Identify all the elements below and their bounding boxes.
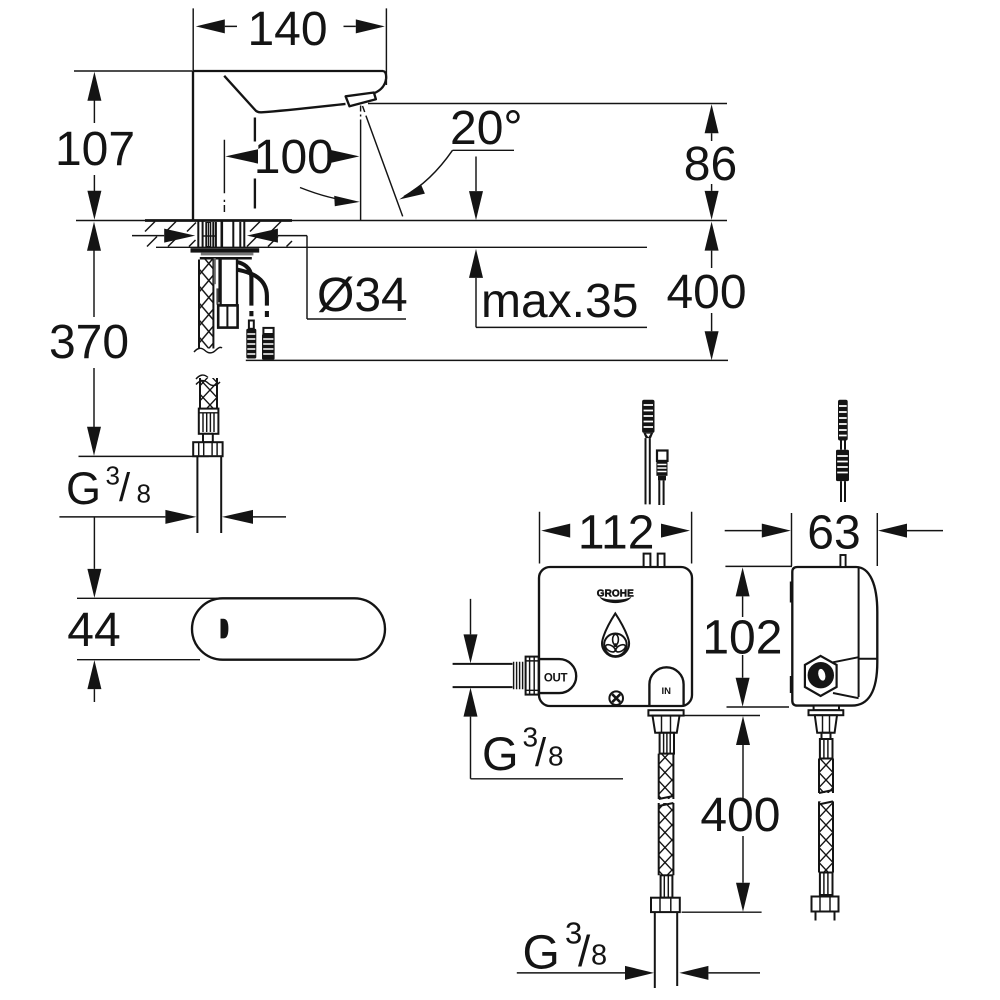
hose1 braided lower — [659, 803, 674, 875]
hose2 crimp — [820, 739, 833, 759]
svg-text:400: 400 — [666, 266, 746, 319]
dim 370 — [49, 222, 209, 457]
dim G3/8 bottom — [517, 916, 760, 980]
svg-text:20°: 20° — [450, 102, 523, 155]
dim O34 — [132, 229, 408, 322]
control box front view — [539, 567, 692, 706]
faucet center line — [223, 140, 225, 212]
OVAL-VIEW — [192, 598, 385, 659]
svg-text:Ø34: Ø34 — [317, 269, 408, 322]
svg-text:86: 86 — [684, 138, 737, 191]
svg-text:8: 8 — [548, 741, 564, 772]
svg-text:max.35: max.35 — [481, 275, 638, 328]
svg-text:112: 112 — [578, 506, 655, 559]
hose2 end nut — [812, 897, 839, 912]
dim 400 lower — [682, 716, 781, 913]
dim G3/8 OUT pipe — [464, 599, 624, 780]
svg-text:OUT: OUT — [544, 673, 568, 685]
hose stem — [203, 434, 213, 442]
svg-text:63: 63 — [807, 506, 860, 559]
svg-text:140: 140 — [247, 3, 327, 56]
side hex fitting — [805, 656, 837, 696]
cable plug 1 — [246, 321, 256, 359]
svg-text:/: / — [578, 927, 591, 976]
BOX-VIEWS — [453, 400, 878, 988]
cable plug 2 — [262, 328, 275, 360]
dim 100 — [225, 131, 359, 184]
counter bottom line — [156, 246, 647, 248]
cable plug A over box1 — [642, 400, 654, 505]
svg-text:GROHE: GROHE — [597, 589, 634, 600]
dim 112 — [540, 506, 692, 563]
svg-text:G: G — [482, 727, 519, 780]
hose2 neck — [822, 733, 831, 739]
dim 86 — [368, 104, 737, 220]
rod break squiggle — [194, 347, 222, 353]
water stream center line — [360, 106, 362, 221]
IN tab — [649, 667, 683, 706]
svg-text:102: 102 — [702, 611, 782, 664]
faucet left edge — [192, 71, 194, 220]
sensor cable wires — [237, 262, 252, 316]
FAUCET-VIEW — [76, 71, 727, 533]
dim 140 — [193, 3, 386, 85]
faucet top-right corner and spout curve — [374, 71, 386, 93]
faucet front face hidden edge dashes — [254, 118, 256, 209]
braided hose upper segment — [196, 375, 220, 409]
hose1 braided upper — [659, 754, 674, 799]
svg-text:44: 44 — [67, 604, 120, 657]
dim 102 — [702, 566, 792, 707]
DIMS-LEFT — [49, 3, 747, 702]
OUT tab — [540, 659, 576, 693]
screw — [609, 691, 623, 705]
sensor window — [221, 619, 229, 639]
hose2 braided upper — [819, 759, 833, 794]
bracket wedge lines — [833, 657, 859, 698]
svg-text:G: G — [523, 927, 560, 980]
svg-text:/: / — [119, 466, 131, 510]
OUT pipe — [453, 664, 513, 687]
cable plug B over box1 — [656, 451, 667, 506]
flexible hose — [197, 456, 221, 533]
svg-text:/: / — [535, 731, 547, 775]
side cover seam — [858, 568, 860, 698]
svg-text:G: G — [66, 463, 101, 514]
cable stub on box2 top — [840, 555, 845, 567]
GROHE logo — [597, 589, 634, 604]
dim G3/8 faucet hose — [59, 461, 286, 524]
DIMS-RIGHT — [464, 506, 944, 980]
dim 20deg — [300, 102, 523, 206]
G3/8 nut — [193, 442, 222, 456]
svg-text:8: 8 — [137, 479, 151, 509]
side notch line — [859, 658, 878, 660]
hose1 crimp lower — [661, 875, 673, 897]
hose2 braided lower — [819, 801, 833, 872]
control box side view — [790, 567, 878, 706]
dim 63 — [725, 506, 943, 566]
hex fitting bore — [808, 662, 834, 688]
faucet top edge — [193, 70, 383, 72]
svg-text:400: 400 — [700, 789, 780, 842]
dim 107 — [55, 71, 193, 220]
cable plugs over box2 — [836, 400, 849, 502]
shank cross-section — [198, 221, 244, 247]
drop icon with fan — [602, 613, 629, 656]
faucet top view outline — [192, 598, 385, 659]
svg-text:100: 100 — [254, 131, 334, 184]
sensor cable strip — [214, 258, 216, 284]
hose1 end nut — [651, 898, 680, 912]
aerator — [346, 93, 376, 107]
dim 400 upper — [246, 222, 747, 361]
spray direction line 20deg — [363, 106, 403, 216]
OUT hex nut — [526, 657, 539, 695]
threaded rod — [194, 260, 222, 353]
svg-text:IN: IN — [662, 686, 672, 697]
counter top line — [76, 220, 727, 222]
hose2 stub — [816, 912, 835, 921]
hose2 nut — [815, 715, 837, 733]
hose1 crimp — [660, 733, 674, 754]
solenoid housing — [221, 259, 237, 306]
svg-text:370: 370 — [49, 316, 129, 369]
UNDERCOUNTER — [0, 0, 1, 1]
box2 bottom neck — [814, 706, 839, 711]
faucet front slope and spout underside — [224, 76, 345, 113]
dim 44 — [67, 517, 260, 702]
counter hatching — [145, 222, 292, 247]
box2 bottom flange — [809, 710, 844, 715]
OUT pipe thread — [514, 662, 523, 689]
dim max.35 — [469, 157, 647, 329]
clips on left edge — [790, 582, 793, 603]
IN hose nut — [653, 716, 680, 733]
IN fitting flange — [648, 710, 683, 715]
housing bottom box — [218, 305, 237, 327]
svg-text:107: 107 — [55, 123, 135, 176]
svg-text:8: 8 — [591, 940, 607, 972]
hose crimp sleeve — [199, 409, 219, 434]
hose2 crimp lower — [820, 873, 833, 896]
cable stubs on box top — [644, 554, 651, 567]
svg-text:3: 3 — [106, 461, 120, 491]
mounting flange bars — [191, 248, 260, 252]
hose1 end pipe — [655, 912, 677, 988]
